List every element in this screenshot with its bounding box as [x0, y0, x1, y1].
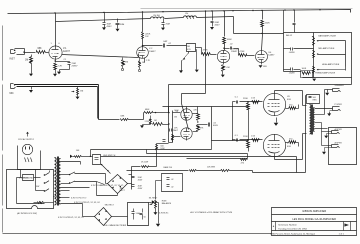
speaker jack J4 SPKR	[333, 106, 340, 108]
svg-text:ALL VOLTAGES ±20% READ WITH VT: ALL VOLTAGES ±20% READ WITH VTVM	[190, 211, 232, 214]
wire grids to PI tubes	[173, 112, 181, 114]
power transformer T1 secondary	[59, 159, 61, 205]
tube V6 6V6 power	[263, 93, 285, 115]
capacitor C14 bias 50M	[133, 209, 135, 212]
capacitor C1 cathode bypass 25M 25WV	[56, 61, 70, 63]
svg-text:1936 Parsons Street, Kala: 1936 Parsons Street, Kalamazoo 21, Michi…	[270, 232, 316, 235]
resistor R33 1M grid leak V2a with terminal	[122, 60, 125, 67]
AC plug P1	[22, 144, 32, 154]
svg-text:A SPKR: A SPKR	[335, 128, 343, 131]
wire jack J1 to grid network	[15, 48, 25, 50]
svg-text:10K: 10K	[76, 150, 80, 152]
power transformer T1 core	[57, 157, 59, 206]
svg-text:CH 8H: CH 8H	[153, 15, 160, 17]
resistor R21 68K channel2	[121, 119, 129, 121]
svg-text:6V6: 6V6	[287, 99, 292, 101]
title block frame	[272, 208, 357, 236]
capacitor C11 in OT box	[309, 96, 312, 98]
svg-text:115V AC SUPPLY: 115V AC SUPPLY	[18, 138, 35, 141]
wire tone box to feedback line	[351, 80, 353, 85]
output transformer T2 secondary	[313, 108, 314, 132]
capacitor C21 filter 20M with ground	[163, 19, 165, 23]
wire V4 plate to tube top	[262, 34, 263, 51]
svg-text:450V: 450V	[215, 25, 221, 27]
svg-text:6V6: 6V6	[287, 146, 292, 148]
svg-text:12AX7: 12AX7	[231, 50, 238, 53]
wire PI top to box	[186, 107, 188, 110]
tone box outer frame	[284, 33, 352, 80]
switch S2 standby contacts	[70, 172, 76, 184]
strain relief squiggle	[25, 158, 33, 163]
resistor R7 plate load V3 100K	[223, 38, 226, 44]
power switch box	[7, 170, 54, 209]
svg-text:P SPKR: P SPKR	[335, 104, 343, 106]
resistor R10 plate load V4	[261, 21, 264, 27]
svg-text:2.7K: 2.7K	[58, 65, 63, 67]
wire B+ rail second (screen supply)	[56, 17, 234, 22]
external speaker box	[329, 128, 357, 165]
wire jacks feed	[315, 114, 325, 116]
switch S1 contacts	[45, 173, 50, 192]
screen resistor R18 V7	[286, 142, 289, 144]
resistor R2 1M grid leak	[31, 55, 33, 57]
wire screen feed right	[296, 157, 298, 173]
svg-text:600V: 600V	[213, 125, 218, 127]
fuse F2 squiggle in switch box	[38, 202, 44, 204]
svg-text:470: 470	[289, 139, 293, 141]
wire coupling feed column	[232, 107, 234, 141]
bridge rectifier selenium SEL1	[108, 175, 128, 194]
wire wiper bus	[320, 40, 346, 42]
svg-text:6.3V TO HEATERS OF V1, V2, V3,: 6.3V TO HEATERS OF V1, V2, V3, V5	[91, 184, 123, 187]
wire rail drop at V1 column	[55, 14, 57, 22]
svg-text:BALANCE: BALANCE	[162, 202, 172, 205]
potentiometer P2 mid amplitude	[313, 51, 315, 58]
resistor R4 plate load 220K V2	[142, 12, 144, 32]
svg-text:220K: 220K	[243, 136, 248, 138]
capacitor C12 filter 20M 450V	[131, 175, 133, 190]
svg-text:1.5K: 1.5K	[225, 67, 230, 69]
power transformer T1 primary	[55, 158, 57, 206]
capacitor C20 filter 30M with ground	[104, 13, 106, 23]
title block left cell divider	[275, 222, 277, 231]
svg-text:1M: 1M	[174, 117, 177, 119]
svg-text:6.3V TO HTRS V1, V2, V3, V4: 6.3V TO HTRS V1, V2, V3, V4	[74, 202, 100, 204]
wire bias feed to grid resistors	[248, 115, 250, 141]
svg-text:Schematic Number: Schematic Number	[278, 224, 297, 227]
svg-text:V6: V6	[287, 96, 290, 98]
svg-text:2.2M: 2.2M	[145, 121, 150, 123]
choke L2 on screen rail	[184, 16, 197, 18]
tube V2 1/2 12AX7	[137, 47, 149, 59]
capacitor C6 treble .002M	[284, 69, 291, 71]
ground stub jack J2	[31, 87, 33, 90]
capacitor C5 bass .02M	[284, 48, 291, 50]
wire tremolo feed column	[205, 12, 207, 94]
svg-text:RES: RES	[313, 99, 318, 101]
wire channel2 to PI grid	[99, 119, 120, 121]
svg-text:1M: 1M	[187, 46, 190, 48]
svg-text:TREBLE AMPLITUDE: TREBLE AMPLITUDE	[315, 72, 336, 75]
wire diode to ground	[156, 202, 159, 204]
svg-text:47K: 47K	[193, 110, 197, 112]
svg-text:6: 6	[59, 43, 61, 45]
wire bridge1 connections	[105, 174, 107, 184]
tube V7 6V6 power	[263, 134, 285, 156]
resistor R11 cathode V4 with ground	[261, 63, 263, 65]
svg-text:1M: 1M	[154, 120, 157, 122]
resistor R37 PI mixer row	[153, 123, 163, 126]
speaker jack J6	[332, 144, 339, 146]
svg-text:450V: 450V	[138, 188, 143, 190]
tube V5A 1/2 12AU7 phase inverter	[181, 109, 192, 120]
title block rule 1	[272, 214, 357, 216]
svg-text:FULL WAVE RECTIFIER: FULL WAVE RECTIFIER	[104, 224, 127, 227]
svg-text:50: 50	[144, 217, 146, 219]
wire AC wiring in switch box	[17, 177, 23, 179]
wire B+ from resistor to rail riser	[156, 151, 158, 167]
wire V4 plate to tone box	[234, 33, 284, 35]
svg-text:SPEAKER: SPEAKER	[335, 84, 345, 87]
ground stub volume box right	[196, 49, 197, 51]
svg-text:220K: 220K	[243, 98, 248, 100]
wire V7 plate to OT	[274, 157, 276, 160]
svg-text:12AX7: 12AX7	[63, 50, 71, 53]
svg-text:V-1: V-1	[63, 48, 67, 50]
wire volume to V3 grid resistor	[196, 47, 202, 49]
switch S3 below gnd box	[101, 164, 102, 165]
resistor R36 PI tail	[172, 135, 174, 141]
svg-text:6.3V ELEC: 6.3V ELEC	[159, 213, 169, 215]
tube V5B 1/2 12AU7 phase inverter	[181, 128, 192, 139]
capacitor C24 on riser	[163, 139, 166, 141]
svg-text:1: 1	[51, 43, 53, 45]
svg-text:100K: 100K	[227, 39, 233, 41]
svg-text:.02: .02	[171, 179, 174, 181]
resistor R25 2.2M with ground	[150, 116, 152, 119]
output transformer T2 box	[307, 95, 320, 104]
junction V3 plate	[223, 48, 224, 49]
svg-text:25WV: 25WV	[72, 65, 78, 67]
ground switch box	[93, 155, 101, 165]
wire heater tap 6.3V	[61, 187, 90, 189]
resistor R24 PI grid feed	[144, 112, 145, 114]
ground below diode	[156, 224, 160, 227]
svg-text:50M: 50M	[136, 213, 140, 215]
speaker jack J3 EXT SPKR	[328, 89, 333, 91]
junction footswitch	[90, 156, 91, 157]
tremolo caps box	[162, 174, 183, 192]
svg-text:0.1: 0.1	[235, 135, 239, 137]
capacitor C18 PI inter-column	[169, 129, 171, 132]
wire V2 plate to coupling cap	[143, 45, 163, 47]
resistor R32 470 near V7	[241, 159, 248, 161]
svg-text:V7: V7	[287, 143, 290, 145]
wire switch box to transformer	[54, 175, 55, 177]
svg-text:470K: 470K	[239, 51, 245, 53]
wire across to PI box bottom	[157, 143, 169, 145]
choke L1 on screen rail	[151, 17, 165, 19]
svg-text:SW: SW	[36, 186, 39, 188]
wire footswitch run right	[90, 150, 92, 157]
svg-text:12AX7: 12AX7	[268, 54, 275, 57]
potentiometer P1 bass amplitude	[313, 37, 315, 46]
resistor R30 footswitch	[73, 156, 75, 158]
ground below jack J6	[325, 147, 332, 149]
svg-text:GIBSON AMPLIFIER: GIBSON AMPLIFIER	[302, 209, 326, 213]
fuse F1 in switch box	[23, 175, 34, 181]
page border bottom	[3, 233, 272, 235]
resistor R12 tone mix in box	[284, 71, 302, 73]
resistor R26 PI plate A	[193, 113, 198, 115]
wire bias resistor feed	[187, 158, 248, 160]
svg-text:A: A	[273, 225, 275, 228]
svg-text:CH: CH	[185, 13, 189, 15]
wire trem box to heater run	[156, 180, 162, 182]
svg-text:SEL RECT: SEL RECT	[105, 204, 115, 206]
resistor R9 470K to V4 grid	[239, 54, 247, 57]
wire heater run upper	[129, 156, 297, 158]
svg-text:HIGH AMPLITUDE: HIGH AMPLITUDE	[322, 63, 340, 66]
wire tone box left rail to B+ rail	[283, 11, 285, 33]
capacitor C2 coupling .02	[163, 44, 165, 48]
svg-text:68K: 68K	[121, 116, 125, 118]
svg-text:1M: 1M	[125, 62, 128, 64]
capacitor C10 coupling to V7 grid	[232, 140, 234, 141]
capacitor C22 filter 20M with ground	[212, 12, 214, 21]
tube V4 1/2 12AX7	[256, 51, 268, 63]
wire V6 plate to OT	[274, 91, 276, 94]
svg-text:6.3V TO HTRS V1, V2, V3, V5: 6.3V TO HTRS V1, V2, V3, V5	[58, 217, 84, 219]
wire bridge2 connections	[82, 204, 84, 217]
bias caps box	[128, 203, 149, 226]
wire secondary to jack bus	[315, 108, 333, 110]
shielded pair wire channel 2	[15, 84, 99, 86]
svg-text:6.3V TO PILOT LT: 6.3V TO PILOT LT	[71, 197, 87, 199]
svg-text:.002M: .002M	[289, 52, 295, 54]
svg-text:SIL RECT: SIL RECT	[149, 198, 158, 200]
svg-text:1 of 1: 1 of 1	[339, 233, 345, 235]
wire tone box to PI feed	[345, 67, 347, 71]
svg-text:10K WW: 10K WW	[207, 166, 215, 168]
wire PI box drop to bias lines	[211, 141, 213, 150]
resistor R20 500K with ground	[77, 87, 79, 89]
wire B+ rail top	[8, 10, 351, 14]
svg-text:470: 470	[241, 163, 245, 165]
svg-text:20M: 20M	[166, 24, 170, 26]
title block revision flag	[344, 223, 349, 226]
title block rule 3	[272, 230, 357, 232]
svg-text:.02: .02	[230, 44, 234, 46]
resistor R6 470K	[202, 53, 211, 56]
wire feedback drop to PI	[168, 85, 170, 113]
capacitor C4 tone feed .02 from rail	[294, 11, 296, 23]
ground arrow between power tubes	[276, 118, 278, 123]
svg-text:VOL: VOL	[187, 49, 192, 51]
tube V1 1/2 12AX7	[49, 46, 62, 59]
title block right cell divider	[343, 222, 345, 231]
input jack J1 INST	[10, 50, 12, 54]
footswitch connector arrow	[70, 155, 73, 158]
tube V3 1/2 12AX7	[217, 50, 229, 62]
wire feedback line from tone stack	[169, 84, 352, 86]
volume control box 1M VOLUME	[187, 44, 196, 52]
wire drop rail2 to V1 plate	[55, 22, 57, 47]
wire V1 plate to V2 grid	[62, 55, 139, 58]
svg-text:820: 820	[263, 66, 267, 68]
svg-text:1M: 1M	[80, 91, 83, 93]
bridge rectifier selenium SEL2	[95, 208, 112, 226]
resistor R35 10K WW bias	[221, 170, 230, 172]
speaker jack J5	[332, 130, 339, 132]
resistor R1 68K grid stopper	[37, 51, 46, 54]
wire rail drop to V3 plate resistor	[224, 11, 226, 37]
capacitor C8 PI coupling	[198, 124, 208, 126]
svg-text:12AU7: 12AU7	[172, 129, 179, 132]
output transformer T2 primary	[310, 105, 311, 135]
svg-text:MIC: MIC	[10, 93, 15, 95]
resistor R28 500 10W screen dropper	[156, 145, 158, 151]
junction PI output	[197, 121, 198, 122]
wire OT centre tap	[305, 96, 307, 148]
screen resistor R17 V6	[286, 108, 289, 110]
svg-text:100K: 100K	[302, 68, 307, 70]
wire HV secondary leads	[61, 161, 81, 163]
svg-text:2.7K: 2.7K	[146, 60, 151, 62]
AC cord box	[18, 146, 41, 170]
wire jog to PI lower grid	[182, 93, 206, 95]
svg-text:1M: 1M	[25, 60, 28, 62]
wire rail2 drop to V4 plate line	[233, 17, 235, 34]
title block rule 2	[272, 221, 357, 223]
wire heater run lower	[127, 170, 189, 172]
wire PI input column B	[172, 111, 174, 143]
svg-text:680K: 680K	[145, 109, 150, 111]
wire PI routing box	[163, 107, 249, 141]
junction V4 plate node	[261, 33, 262, 34]
svg-text:30M: 30M	[120, 24, 124, 26]
page border left	[2, 26, 4, 81]
svg-text:47K: 47K	[200, 127, 204, 129]
capacitor C15 bias 50M	[142, 209, 144, 213]
resistor R16 1.5K grid stop lower	[252, 139, 260, 142]
svg-text:RECT: RECT	[120, 190, 126, 192]
resistor R8 cathode V3 with ground	[223, 63, 225, 65]
resistor R27 PI plate B	[193, 131, 198, 133]
svg-text:1K 10W: 1K 10W	[141, 162, 148, 164]
wire diagonal to V5B grid	[182, 104, 189, 130]
tone box left rail wire	[283, 33, 285, 72]
potentiometer P3 treble amplitude	[313, 67, 315, 74]
capacitor C16 trem	[167, 177, 170, 179]
ground below jack J5	[327, 133, 332, 135]
ground below volume wiper	[179, 70, 183, 73]
resistor R14 grid leak V7 220K	[247, 139, 248, 140]
svg-text:1W: 1W	[145, 36, 149, 38]
svg-text:BASS AMPLITUDE: BASS AMPLITUDE	[318, 35, 336, 38]
wire bridge1 output up	[131, 167, 133, 175]
capacitor C13 filter 40M 450V	[132, 184, 135, 186]
potentiometer wiper volume	[188, 52, 190, 54]
svg-text:.02: .02	[171, 186, 174, 188]
ground below jack J4	[330, 110, 333, 112]
page frame top faint line	[141, 8, 353, 10]
svg-text:.002M: .002M	[289, 72, 295, 74]
output transformer T2 core	[311, 105, 313, 135]
wire OT return	[305, 148, 307, 173]
junction dots on B+ rail	[54, 12, 55, 13]
junction V2 plate	[142, 45, 143, 46]
capacitor C3 coupling V3 to V4	[225, 48, 230, 50]
wire PI input column A	[168, 107, 170, 143]
svg-text:Tuesday, December 28, 1954: Tuesday, December 28, 1954	[278, 227, 307, 230]
silicon diode D1	[149, 202, 152, 204]
ground below R3	[55, 70, 57, 74]
resistor R29 250 ohm bias	[190, 170, 197, 172]
ground symbol above AC label	[27, 134, 29, 137]
input jack J2 MIC	[10, 84, 12, 89]
svg-text:FUSE: FUSE	[23, 178, 29, 180]
svg-text:V-2: V-2	[149, 48, 153, 50]
hum balance pot P4	[155, 197, 157, 200]
ground below hum pot	[153, 212, 157, 215]
svg-text:(AC INTERLOCK SW): (AC INTERLOCK SW)	[17, 212, 37, 215]
ground below R2	[31, 64, 33, 74]
svg-text:450V: 450V	[138, 180, 143, 182]
resistor R5 cathode V2	[144, 58, 146, 63]
capacitor C17 trem	[167, 184, 170, 186]
svg-text:MID AMPLITUDE: MID AMPLITUDE	[318, 47, 335, 50]
capacitor C7 with ground tone	[314, 77, 315, 79]
resistor R15 1.5K grid stop upper	[252, 101, 260, 104]
wire PI bottom to box	[186, 140, 188, 141]
svg-text:470: 470	[289, 104, 293, 106]
svg-text:1.5K: 1.5K	[251, 136, 256, 138]
svg-text:12AX7: 12AX7	[149, 50, 156, 53]
resistor R34 1M grid leak V2b with terminal	[139, 61, 141, 68]
svg-text:450V: 450V	[107, 26, 113, 28]
svg-text:.02: .02	[168, 43, 172, 45]
capacitor C9 coupling to V6 grid	[232, 102, 234, 107]
tone box centre rail wire	[313, 33, 315, 78]
resistor R13 grid leak V6 220K	[247, 101, 248, 102]
svg-text:220K: 220K	[265, 22, 271, 24]
svg-text:BIAS 250: BIAS 250	[164, 166, 173, 169]
wire rail drop to V4 plate	[262, 11, 264, 20]
resistor R3 cathode 2.7K	[55, 60, 57, 63]
ground below jack J3	[325, 93, 329, 96]
svg-text:1.5K: 1.5K	[251, 98, 256, 100]
svg-text:INST: INST	[10, 59, 16, 61]
resistor R19 1K 10W dropping	[132, 166, 141, 168]
svg-text:A SPKR: A SPKR	[335, 142, 343, 145]
svg-text:C1: C1	[64, 59, 68, 61]
wire bias run	[253, 172, 306, 174]
svg-text:0.1: 0.1	[235, 97, 239, 99]
svg-text:68K: 68K	[38, 48, 43, 50]
svg-text:BA .02: BA .02	[286, 34, 293, 37]
capacitor C25 filter 30M with ground	[117, 19, 119, 23]
svg-text:LES PAUL MODEL GA-40 AMPLI: LES PAUL MODEL GA-40 AMPLIFIER	[292, 217, 336, 221]
shielded pair drop to phase inverter	[98, 85, 100, 120]
